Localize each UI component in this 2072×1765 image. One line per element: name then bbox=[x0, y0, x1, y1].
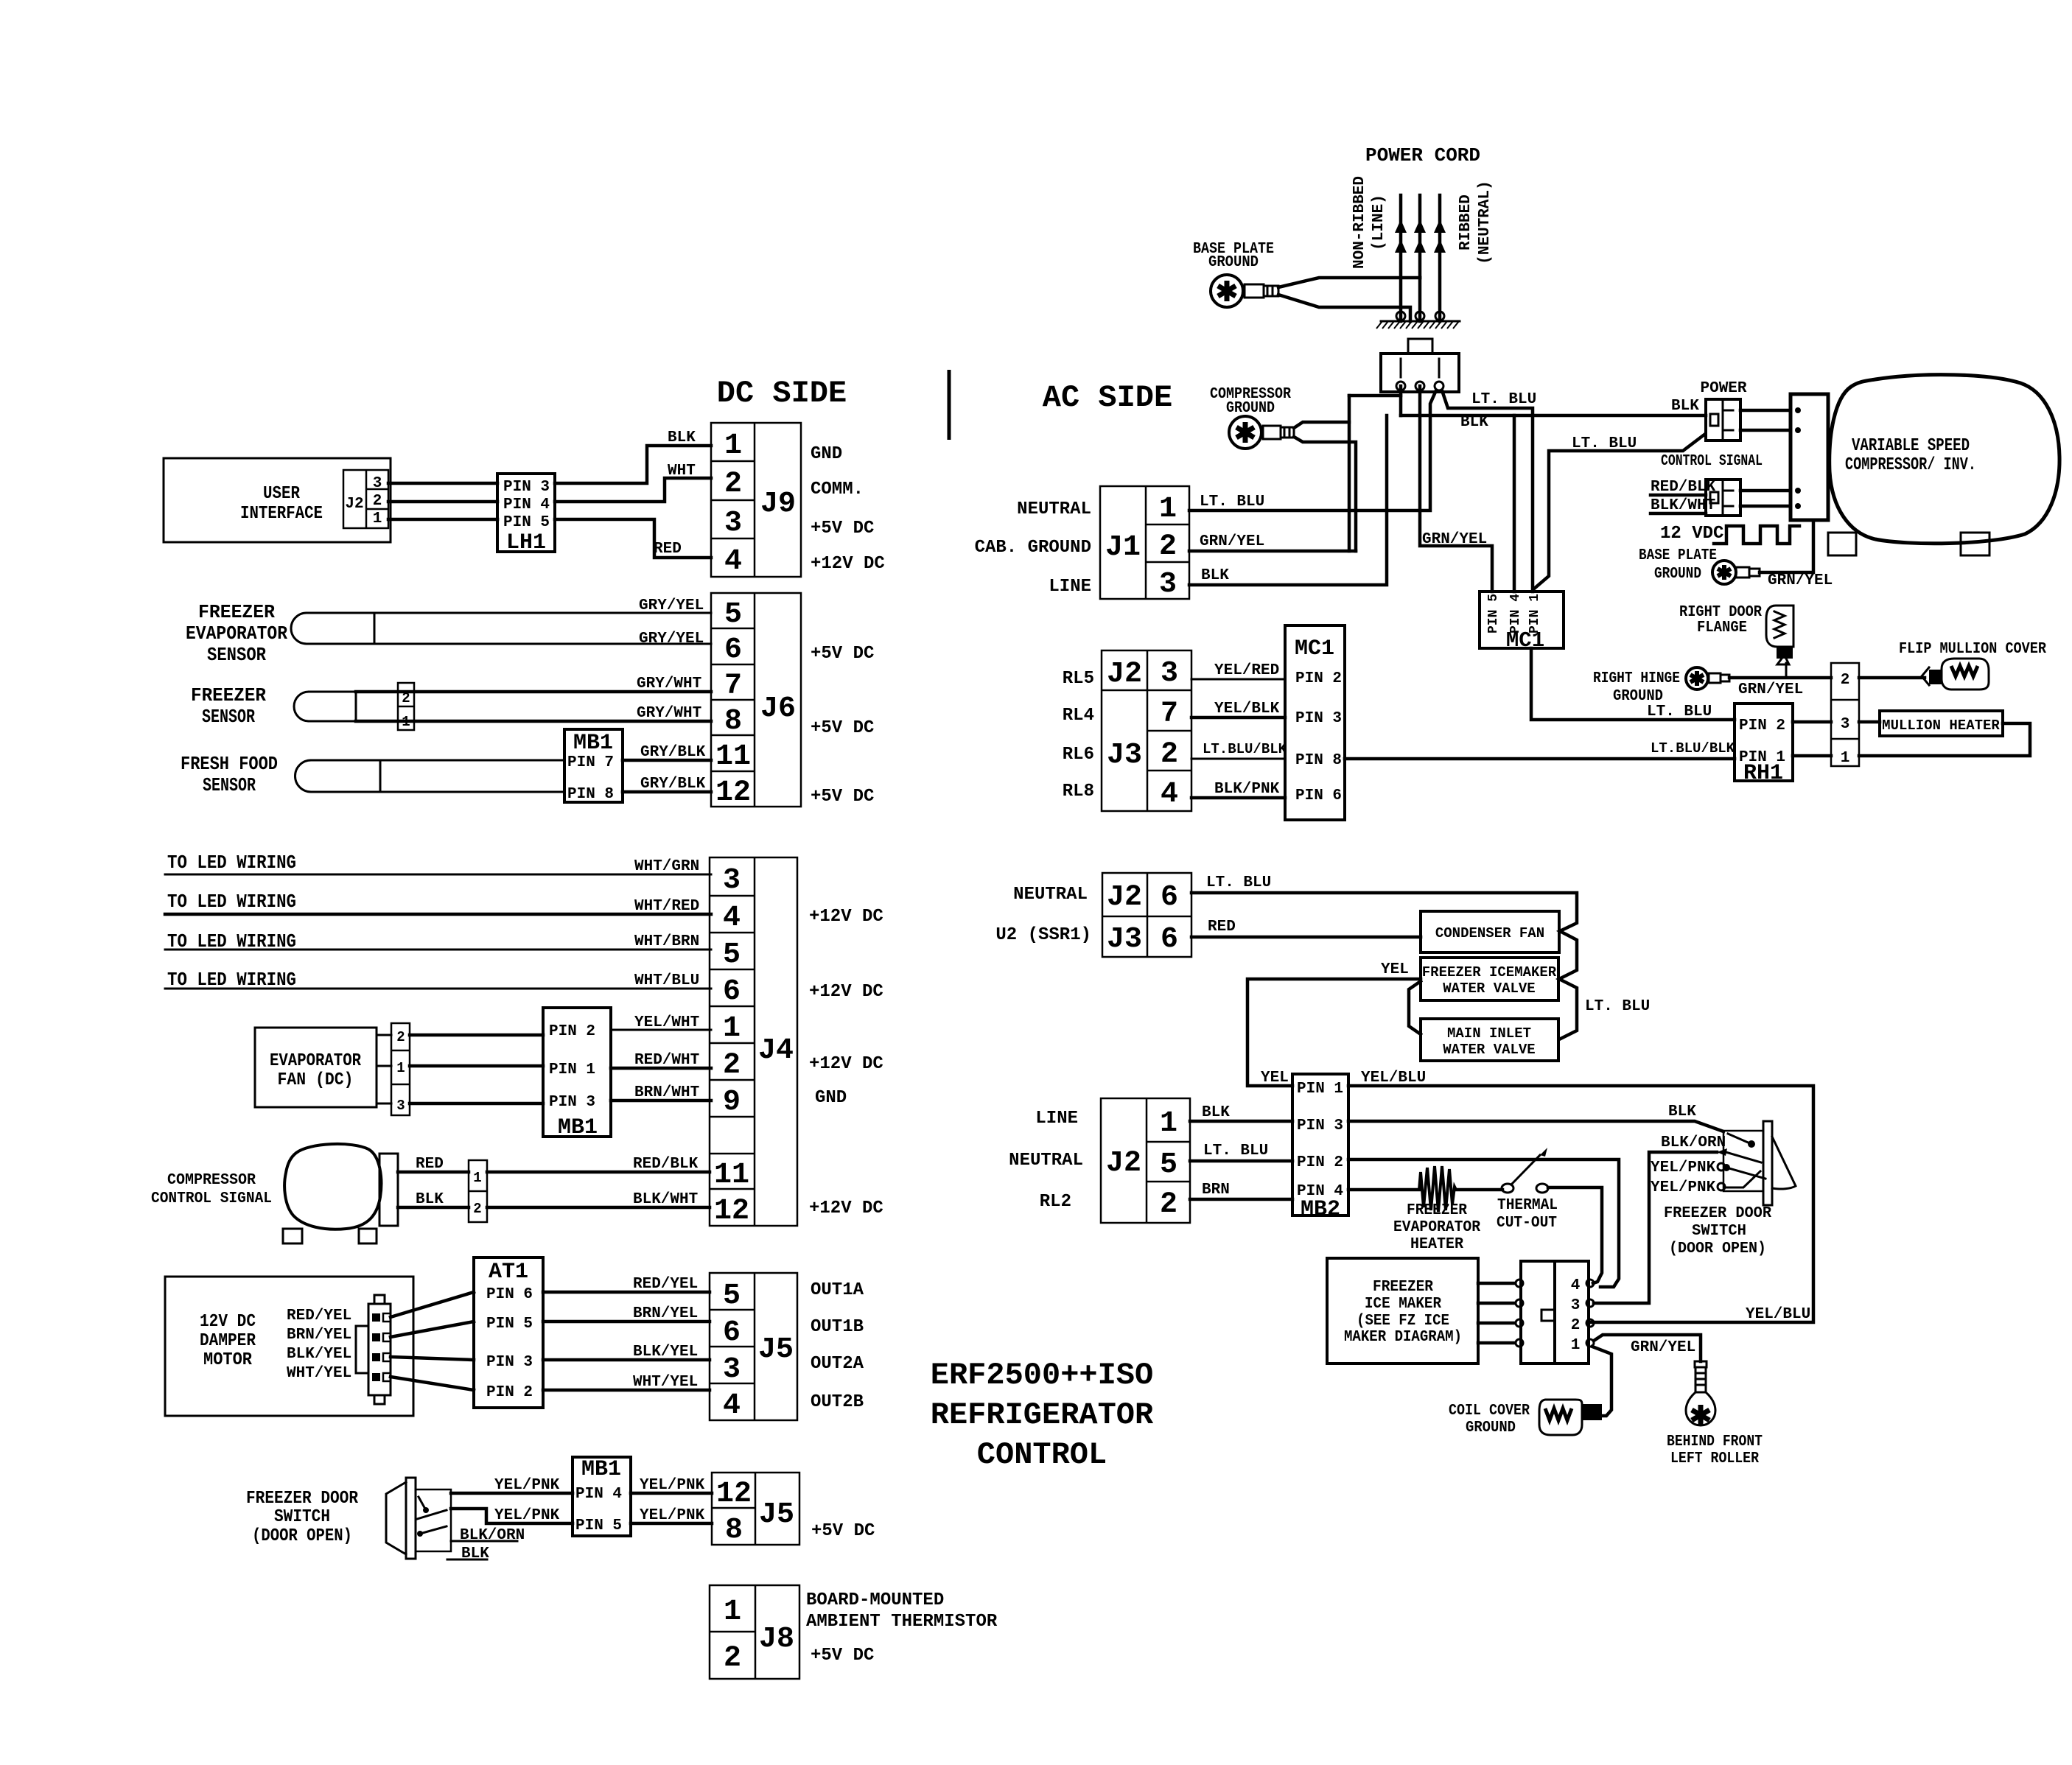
svg-text:5: 5 bbox=[1160, 1148, 1177, 1182]
svg-text:BRN/YEL: BRN/YEL bbox=[287, 1327, 351, 1344]
wire YEL/PNK switch to MB1 pin4 bbox=[451, 1492, 573, 1495]
svg-text:FLIP MULLION COVER: FLIP MULLION COVER bbox=[1899, 641, 2046, 658]
wire RH1 pin2 to connector pin3 bbox=[1793, 720, 1831, 724]
svg-text:5: 5 bbox=[723, 938, 741, 972]
svg-text:12: 12 bbox=[715, 776, 751, 810]
wire LT. BLU MC1 pin1 to POWER connector bbox=[1533, 435, 1704, 589]
svg-text:GRN/YEL: GRN/YEL bbox=[1631, 1339, 1695, 1356]
svg-text:BLK/ORN: BLK/ORN bbox=[1661, 1134, 1726, 1151]
svg-text:FREEZER: FREEZER bbox=[1407, 1202, 1467, 1219]
wire plug right pin to J1 neutral bbox=[1189, 390, 1436, 510]
wire RED/BLK to J4 pin11 bbox=[487, 1171, 710, 1174]
connector J5 (second) bbox=[712, 1473, 799, 1547]
svg-text:4: 4 bbox=[723, 902, 741, 935]
svg-text:GRN/YEL: GRN/YEL bbox=[1768, 572, 1833, 589]
connector 2/1/3 on evaporator fan bbox=[391, 1023, 410, 1115]
wire YEL/WHT to J4 pin1 bbox=[611, 1029, 711, 1031]
wire BLK compressor to 2 bbox=[398, 1206, 469, 1210]
svg-text:6: 6 bbox=[723, 1316, 741, 1350]
svg-text:PIN 5: PIN 5 bbox=[575, 1517, 622, 1534]
connector AT1 bbox=[474, 1257, 543, 1408]
compressor side connector bbox=[379, 1154, 398, 1226]
svg-text:J9: J9 bbox=[760, 488, 796, 521]
wire damper to AT1 pin6 bbox=[391, 1292, 474, 1317]
connector MB1 (door switch) bbox=[573, 1457, 631, 1536]
svg-text:BLK: BLK bbox=[1671, 398, 1699, 415]
svg-text:J3: J3 bbox=[1107, 923, 1142, 956]
wire WHT/RED to J4 pin4 bbox=[165, 913, 711, 916]
ice maker connector bbox=[1516, 1261, 1594, 1364]
svg-text:3: 3 bbox=[1571, 1297, 1581, 1314]
svg-text:VARIABLE SPEED: VARIABLE SPEED bbox=[1852, 436, 1970, 456]
wire RED/WHT to J4 pin2 bbox=[611, 1067, 711, 1070]
svg-text:J3: J3 bbox=[1107, 739, 1142, 772]
svg-text:WHT/GRN: WHT/GRN bbox=[634, 858, 699, 875]
connector J2/J3 neutral block bbox=[1102, 873, 1191, 957]
svg-text:GRY/YEL: GRY/YEL bbox=[639, 597, 704, 614]
wire BLK/PNK to MC1 pin6 bbox=[1191, 796, 1285, 800]
wires CONTROL connector to inverter bbox=[1740, 489, 1791, 493]
connector J9 bbox=[711, 423, 801, 578]
svg-text:GROUND: GROUND bbox=[1654, 566, 1701, 583]
wire fan pin2 row bbox=[377, 1034, 391, 1036]
svg-text:OUT2B: OUT2B bbox=[811, 1392, 864, 1412]
compressor feet bbox=[1828, 533, 1856, 555]
svg-text:RIGHT HINGE: RIGHT HINGE bbox=[1593, 670, 1680, 687]
wire BLK/WHT to J4 pin12 bbox=[487, 1206, 710, 1210]
connector LH1 bbox=[497, 474, 555, 555]
svg-text:CONTROL SIGNAL: CONTROL SIGNAL bbox=[151, 1190, 272, 1207]
connector MC1 (left) bbox=[1285, 625, 1345, 820]
wire YEL/PNK MB1 to J5 pin12 bbox=[631, 1492, 712, 1495]
ground bus bar bbox=[1376, 312, 1460, 329]
wire RED LH1 pin5 to J9 pin4 bbox=[555, 519, 711, 558]
svg-text:FREEZER: FREEZER bbox=[191, 684, 266, 706]
svg-text:MB1: MB1 bbox=[581, 1457, 621, 1482]
svg-text:RED: RED bbox=[416, 1156, 444, 1173]
svg-text:BLK/YEL: BLK/YEL bbox=[633, 1344, 698, 1361]
svg-text:PIN 5: PIN 5 bbox=[1486, 594, 1501, 634]
svg-text:NEUTRAL: NEUTRAL bbox=[1017, 499, 1091, 519]
wire BLK MB2 pin3 to door switch bbox=[1348, 1121, 1723, 1131]
wire RED compressor to 1 bbox=[398, 1171, 469, 1174]
POWER connector bbox=[1706, 399, 1740, 441]
wire RED/YEL to J5 pin5 bbox=[543, 1291, 710, 1294]
svg-text:ERF2500++ISO: ERF2500++ISO bbox=[931, 1358, 1153, 1393]
svg-text:+12V DC: +12V DC bbox=[809, 982, 883, 1002]
svg-text:+5V DC: +5V DC bbox=[811, 1646, 874, 1666]
svg-text:5: 5 bbox=[723, 1280, 741, 1313]
svg-text:4: 4 bbox=[1161, 778, 1178, 811]
svg-text:CONTROL: CONTROL bbox=[977, 1437, 1107, 1473]
svg-text:PIN 3: PIN 3 bbox=[486, 1354, 533, 1371]
svg-text:4: 4 bbox=[724, 545, 742, 578]
main inlet water valve box bbox=[1421, 1019, 1558, 1061]
mullion heater box bbox=[1880, 711, 2003, 736]
wire GRN/YEL J1 pin2 to compressor ground bbox=[1189, 550, 1356, 553]
wires ice maker to connector bbox=[1478, 1282, 1515, 1285]
svg-text:+12V DC: +12V DC bbox=[809, 1199, 883, 1218]
wire GRY/YEL to J6 pin6 bbox=[374, 643, 711, 645]
svg-text:2: 2 bbox=[723, 1049, 741, 1082]
svg-text:PIN 1: PIN 1 bbox=[1527, 594, 1542, 634]
wire pair compressor ground up to plug pin bbox=[1294, 422, 1349, 428]
wire icemaker pin1 to roller bulb bbox=[1594, 1335, 1701, 1361]
wire LT. BLU J2-5 to MB2 pin2 bbox=[1190, 1159, 1292, 1163]
svg-text:WHT/YEL: WHT/YEL bbox=[287, 1365, 351, 1382]
svg-text:CAB. GROUND: CAB. GROUND bbox=[975, 538, 1091, 558]
svg-text:+12V DC: +12V DC bbox=[809, 1054, 883, 1074]
svg-text:LT. BLU: LT. BLU bbox=[1471, 391, 1536, 408]
svg-text:RL4: RL4 bbox=[1063, 706, 1094, 726]
wire BRN/WHT to J4 pin9 bbox=[611, 1099, 711, 1103]
svg-text:2: 2 bbox=[1160, 1188, 1177, 1221]
svg-text:BASE PLATE: BASE PLATE bbox=[1639, 547, 1717, 564]
ERF2500 title text bbox=[931, 1358, 1154, 1473]
svg-text:PIN 1: PIN 1 bbox=[549, 1062, 595, 1078]
svg-text:PIN 4: PIN 4 bbox=[503, 496, 550, 513]
svg-text:6: 6 bbox=[1161, 923, 1178, 956]
svg-text:3: 3 bbox=[723, 1353, 741, 1386]
connector J4 bbox=[710, 857, 797, 1228]
freezer door switch icon (AC) bbox=[1718, 1121, 1796, 1205]
freezer icemaker water valve box bbox=[1421, 958, 1558, 1000]
connector J2 line block bbox=[1101, 1098, 1190, 1223]
inverter connector bar bbox=[1791, 394, 1828, 520]
svg-text:YEL: YEL bbox=[1261, 1070, 1289, 1087]
freezer sensor label bbox=[191, 684, 266, 728]
svg-text:PIN 8: PIN 8 bbox=[1295, 752, 1342, 769]
svg-text:WHT: WHT bbox=[668, 463, 696, 480]
wire YEL/PNK switch to MB1 pin5 bbox=[451, 1509, 573, 1523]
wire WHT/BRN to J4 pin5 bbox=[165, 949, 711, 951]
svg-text:J2: J2 bbox=[1106, 1147, 1141, 1180]
damper motor box bbox=[165, 1277, 413, 1416]
wire flange to GRN/YEL bbox=[1785, 663, 1788, 678]
wire WHT/BLU to J4 pin6 bbox=[165, 988, 711, 990]
svg-text:GROUND: GROUND bbox=[1208, 254, 1259, 271]
svg-text:YEL/WHT: YEL/WHT bbox=[634, 1014, 699, 1031]
svg-text:2: 2 bbox=[1161, 738, 1178, 771]
wire J2 pin2 to LH1 bbox=[388, 500, 497, 504]
condenser fan box bbox=[1421, 911, 1559, 952]
svg-text:AT1: AT1 bbox=[489, 1260, 528, 1285]
freezer evaporator sensor bulb bbox=[291, 613, 374, 644]
svg-text:MB1: MB1 bbox=[573, 731, 613, 756]
svg-text:BOARD-MOUNTED: BOARD-MOUNTED bbox=[806, 1590, 944, 1610]
svg-text:J4: J4 bbox=[758, 1034, 794, 1067]
svg-text:MC1: MC1 bbox=[1295, 636, 1334, 662]
svg-text:MC1: MC1 bbox=[1506, 628, 1544, 653]
svg-text:YEL/RED: YEL/RED bbox=[1214, 662, 1279, 679]
svg-text:+5V DC: +5V DC bbox=[811, 718, 874, 738]
wire GRN/YEL inverter to base plate ground bbox=[1760, 520, 1813, 572]
connector RH1 bbox=[1735, 703, 1793, 786]
svg-text:LT. BLU: LT. BLU bbox=[1203, 1143, 1268, 1159]
svg-text:11: 11 bbox=[714, 1159, 749, 1192]
svg-text:1: 1 bbox=[723, 1012, 741, 1045]
svg-text:GND: GND bbox=[815, 1088, 847, 1108]
svg-text:1: 1 bbox=[1160, 1107, 1177, 1140]
svg-text:AC SIDE: AC SIDE bbox=[1043, 380, 1172, 415]
svg-text:BLK: BLK bbox=[461, 1545, 489, 1562]
svg-text:RED: RED bbox=[654, 541, 682, 558]
svg-text:MAIN INLET: MAIN INLET bbox=[1447, 1025, 1531, 1042]
svg-text:ICE MAKER: ICE MAKER bbox=[1365, 1296, 1441, 1313]
svg-text:1: 1 bbox=[724, 1596, 741, 1629]
svg-text:BLK/YEL: BLK/YEL bbox=[287, 1346, 351, 1363]
svg-text:FREEZER: FREEZER bbox=[198, 601, 275, 623]
svg-text:2: 2 bbox=[1571, 1317, 1581, 1334]
svg-text:NON-RIBBED: NON-RIBBED bbox=[1351, 176, 1368, 269]
svg-text:FAN (DC): FAN (DC) bbox=[278, 1070, 354, 1090]
wire BLK/WHT stub bbox=[1651, 512, 1706, 516]
svg-text:AMBIENT THERMISTOR: AMBIENT THERMISTOR bbox=[806, 1612, 998, 1632]
svg-text:LH1: LH1 bbox=[506, 530, 546, 555]
svg-text:BRN: BRN bbox=[1202, 1182, 1230, 1199]
svg-text:FLANGE: FLANGE bbox=[1697, 620, 1747, 636]
svg-text:RIGHT DOOR: RIGHT DOOR bbox=[1679, 604, 1762, 621]
svg-text:RL5: RL5 bbox=[1063, 669, 1094, 689]
svg-text:GROUND: GROUND bbox=[1613, 688, 1663, 705]
flip mullion cover icon bbox=[1922, 659, 1989, 689]
svg-text:J1: J1 bbox=[1105, 531, 1141, 564]
svg-text:RIBBED: RIBBED bbox=[1457, 194, 1474, 250]
power cord wire line 1 bbox=[1399, 195, 1403, 321]
svg-text:1: 1 bbox=[473, 1170, 481, 1186]
svg-text:6: 6 bbox=[1161, 881, 1178, 914]
svg-text:LT. BLU: LT. BLU bbox=[1647, 703, 1712, 720]
base plate ground lug (right) bbox=[1712, 561, 1760, 584]
svg-text:1: 1 bbox=[373, 510, 382, 527]
svg-text:LINE: LINE bbox=[1035, 1109, 1078, 1129]
svg-text:GRN/YEL: GRN/YEL bbox=[1422, 531, 1487, 548]
svg-text:3: 3 bbox=[723, 864, 741, 897]
svg-text:FREEZER ICEMAKER: FREEZER ICEMAKER bbox=[1422, 964, 1557, 980]
svg-text:EVAPORATOR: EVAPORATOR bbox=[186, 622, 287, 645]
fresh food sensor label bbox=[181, 753, 278, 796]
compressor feet bbox=[283, 1229, 302, 1243]
svg-text:(DOOR OPEN): (DOOR OPEN) bbox=[252, 1526, 352, 1546]
svg-text:LEFT ROLLER: LEFT ROLLER bbox=[1670, 1450, 1759, 1467]
power cord wire line 2 bbox=[1418, 195, 1422, 278]
svg-text:PIN 2: PIN 2 bbox=[1295, 670, 1342, 687]
svg-text:SENSOR: SENSOR bbox=[207, 644, 266, 666]
svg-text:INTERFACE: INTERFACE bbox=[240, 504, 323, 524]
svg-text:FREEZER DOOR: FREEZER DOOR bbox=[1664, 1205, 1771, 1222]
svg-text:11: 11 bbox=[715, 740, 751, 773]
wire damper to AT1 pin2 bbox=[391, 1377, 474, 1390]
svg-text:J8: J8 bbox=[759, 1623, 794, 1656]
power cord wire line 3 bbox=[1438, 195, 1442, 321]
wire icemaker pin1 to coil cover ground bbox=[1592, 1347, 1611, 1416]
svg-text:MOTOR: MOTOR bbox=[203, 1350, 253, 1370]
svg-text:(SEE FZ ICE: (SEE FZ ICE bbox=[1357, 1313, 1449, 1330]
wire LT.BLU/BLK MC1 pin8 to RH1 pin1 bbox=[1345, 757, 1735, 761]
svg-text:8: 8 bbox=[724, 705, 742, 738]
svg-text:BLK/WHT: BLK/WHT bbox=[633, 1191, 698, 1208]
arrowheads on power cord wires bbox=[1395, 220, 1446, 253]
svg-text:PIN 2: PIN 2 bbox=[549, 1023, 595, 1040]
connector MB2 bbox=[1292, 1074, 1348, 1222]
svg-text:RL6: RL6 bbox=[1063, 745, 1094, 765]
svg-text:PIN 6: PIN 6 bbox=[486, 1286, 533, 1303]
wire YEL/BLK to MC1 pin3 bbox=[1191, 716, 1285, 720]
freezer door switch label (DC) bbox=[246, 1489, 359, 1546]
right hinge ground lug bbox=[1686, 667, 1729, 689]
svg-text:BLK: BLK bbox=[1201, 567, 1229, 584]
coil cover ground icon bbox=[1539, 1400, 1602, 1435]
svg-text:PIN 2: PIN 2 bbox=[1297, 1154, 1343, 1171]
svg-text:4: 4 bbox=[1571, 1277, 1581, 1294]
svg-text:J2: J2 bbox=[345, 496, 363, 513]
wire thermal cutout to icemaker connector pin4 bbox=[1548, 1187, 1602, 1283]
svg-text:MULLION HEATER: MULLION HEATER bbox=[1882, 717, 2000, 734]
svg-text:COMPRESSOR/ INV.: COMPRESSOR/ INV. bbox=[1845, 455, 1976, 475]
svg-text:PIN 6: PIN 6 bbox=[1295, 787, 1342, 804]
wire BLK/YEL to J5 pin3 bbox=[543, 1358, 710, 1362]
svg-text:BLK: BLK bbox=[1668, 1103, 1696, 1120]
wire GRY/BLK to J6 pin12 bbox=[623, 790, 711, 794]
svg-text:7: 7 bbox=[1161, 698, 1178, 731]
wire coil to thermal cutout bbox=[1455, 1188, 1502, 1192]
svg-text:PIN 4: PIN 4 bbox=[575, 1486, 622, 1503]
wire RH1 pin1 to connector pin1 bbox=[1793, 754, 1831, 758]
svg-text:U2 (SSR1): U2 (SSR1) bbox=[995, 925, 1091, 945]
svg-text:LT. BLU: LT. BLU bbox=[1200, 494, 1264, 510]
svg-text:OUT2A: OUT2A bbox=[811, 1354, 864, 1374]
wire MC1 to RH1 LT. BLU bbox=[1531, 648, 1735, 720]
svg-text:WHT/BLU: WHT/BLU bbox=[634, 972, 699, 989]
svg-text:COIL COVER: COIL COVER bbox=[1449, 1403, 1530, 1420]
wire stub BLK bbox=[447, 1559, 487, 1561]
connector MB1 (sensor) bbox=[564, 729, 623, 803]
CONTROL SIGNAL connector bbox=[1706, 480, 1740, 516]
wire mullion heater loop back to pin1 bbox=[1859, 723, 2030, 756]
svg-text:THERMAL: THERMAL bbox=[1497, 1197, 1558, 1214]
svg-text:GRN/YEL: GRN/YEL bbox=[1200, 533, 1264, 550]
svg-text:BRN/YEL: BRN/YEL bbox=[633, 1305, 698, 1322]
wire LT. BLU plug right pin to MC1 pin1 bbox=[1442, 390, 1533, 592]
connector J8 bbox=[710, 1585, 799, 1679]
wire BLK J1 pin3 up to BLK line bbox=[1189, 415, 1387, 585]
svg-text:3: 3 bbox=[373, 475, 382, 492]
wire BLK LH1 pin3 to J9 pin1 bbox=[555, 446, 711, 483]
svg-text:6: 6 bbox=[724, 634, 742, 667]
connector J1 bbox=[1100, 486, 1189, 601]
svg-text:SWITCH: SWITCH bbox=[274, 1507, 330, 1527]
svg-text:PIN 3: PIN 3 bbox=[1297, 1117, 1343, 1134]
svg-text:+5V DC: +5V DC bbox=[811, 519, 874, 538]
svg-text:12: 12 bbox=[716, 1478, 752, 1511]
wire WHT/YEL to J5 pin4 bbox=[543, 1389, 710, 1392]
svg-text:FREEZER DOOR: FREEZER DOOR bbox=[246, 1489, 359, 1509]
svg-text:PIN 2: PIN 2 bbox=[1739, 717, 1785, 734]
wire pair base plate ground to cord bbox=[1278, 278, 1420, 287]
compressor control signal label bbox=[151, 1172, 272, 1207]
svg-text:PIN 3: PIN 3 bbox=[549, 1094, 595, 1111]
svg-text:RL8: RL8 bbox=[1063, 782, 1094, 801]
connector MC1 (top) bbox=[1480, 592, 1564, 653]
svg-text:YEL/PNK: YEL/PNK bbox=[494, 1507, 560, 1524]
svg-text:GRY/WHT: GRY/WHT bbox=[637, 676, 701, 692]
svg-text:2: 2 bbox=[373, 493, 382, 510]
connector 1/2 compressor control bbox=[469, 1160, 487, 1222]
wire RED/BLK stub bbox=[1651, 494, 1706, 497]
base plate ground lug (top) bbox=[1211, 275, 1278, 307]
svg-text:5: 5 bbox=[724, 598, 742, 631]
wire J2 pin1 to LH1 bbox=[388, 518, 497, 522]
compressor blob (DC) bbox=[284, 1144, 381, 1229]
svg-text:RH1: RH1 bbox=[1743, 761, 1783, 786]
svg-text:+5V DC: +5V DC bbox=[811, 644, 874, 664]
svg-text:EVAPORATOR: EVAPORATOR bbox=[270, 1051, 362, 1071]
svg-text:YEL: YEL bbox=[1381, 961, 1409, 978]
svg-text:3: 3 bbox=[396, 1098, 405, 1114]
svg-text:2: 2 bbox=[1159, 530, 1177, 564]
svg-text:PIN 4: PIN 4 bbox=[1508, 594, 1523, 634]
svg-text:NEUTRAL: NEUTRAL bbox=[1009, 1151, 1083, 1171]
svg-text:YEL/PNK: YEL/PNK bbox=[494, 1477, 560, 1494]
svg-text:J2: J2 bbox=[1107, 881, 1142, 914]
wire RED J3-6 to condenser fan bbox=[1191, 936, 1421, 939]
svg-text:PIN 7: PIN 7 bbox=[567, 754, 614, 771]
svg-text:BLK: BLK bbox=[416, 1191, 444, 1208]
freezer evaporator heater coil bbox=[1419, 1166, 1456, 1212]
wire YEL/RED to MC1 pin2 bbox=[1191, 678, 1285, 681]
svg-text:COMPRESSOR: COMPRESSOR bbox=[167, 1172, 256, 1189]
svg-text:SWITCH: SWITCH bbox=[1692, 1223, 1746, 1240]
svg-text:3: 3 bbox=[724, 507, 742, 540]
svg-text:RL2: RL2 bbox=[1040, 1192, 1071, 1212]
svg-text:2: 2 bbox=[724, 1642, 741, 1675]
svg-text:RED: RED bbox=[1208, 919, 1236, 936]
svg-text:PIN 1: PIN 1 bbox=[1297, 1081, 1343, 1098]
svg-text:WHT/YEL: WHT/YEL bbox=[633, 1374, 698, 1391]
wire stub BLK/ORN bbox=[451, 1540, 517, 1543]
wire YEL/PNK MB1 to J5 pin8 bbox=[631, 1522, 712, 1526]
svg-text:J5: J5 bbox=[758, 1333, 794, 1366]
svg-text:LT. BLU: LT. BLU bbox=[1572, 435, 1637, 452]
svg-text:OUT1A: OUT1A bbox=[811, 1280, 864, 1300]
variable speed compressor blob bbox=[1830, 375, 2059, 544]
connector 2/1 on freezer sensor bbox=[398, 683, 414, 730]
svg-text:SENSOR: SENSOR bbox=[203, 774, 256, 796]
behind front left roller bulb bbox=[1686, 1361, 1715, 1425]
svg-text:REFRIGERATOR: REFRIGERATOR bbox=[931, 1397, 1154, 1433]
thermal cutout bbox=[1502, 1148, 1548, 1193]
wire plug left pin down bbox=[1399, 386, 1403, 415]
connector MB1 (fan) bbox=[543, 1008, 611, 1140]
wire BLK plug to POWER connector bbox=[1401, 414, 1706, 418]
compressor ground lug bbox=[1229, 416, 1294, 449]
svg-text:(NEUTRAL): (NEUTRAL) bbox=[1477, 180, 1494, 264]
wire BRN J2-2 to MB2 pin4 bbox=[1190, 1198, 1292, 1201]
wire fan pin3 row bbox=[377, 1103, 391, 1105]
power plug body bbox=[1381, 339, 1459, 392]
svg-text:GRY/BLK: GRY/BLK bbox=[640, 776, 706, 793]
svg-text:1: 1 bbox=[1571, 1337, 1581, 1354]
svg-text:BLK: BLK bbox=[1460, 414, 1488, 431]
svg-text:RED/WHT: RED/WHT bbox=[634, 1052, 699, 1069]
svg-text:+12V DC: +12V DC bbox=[809, 907, 883, 927]
svg-text:YEL/PNK: YEL/PNK bbox=[640, 1507, 705, 1524]
svg-text:PIN 5: PIN 5 bbox=[503, 514, 550, 531]
svg-text:GRN/YEL: GRN/YEL bbox=[1738, 681, 1803, 698]
svg-text:CONDENSER FAN: CONDENSER FAN bbox=[1435, 925, 1544, 941]
svg-text:BEHIND FRONT: BEHIND FRONT bbox=[1667, 1434, 1763, 1450]
svg-text:WATER VALVE: WATER VALVE bbox=[1443, 1042, 1535, 1058]
